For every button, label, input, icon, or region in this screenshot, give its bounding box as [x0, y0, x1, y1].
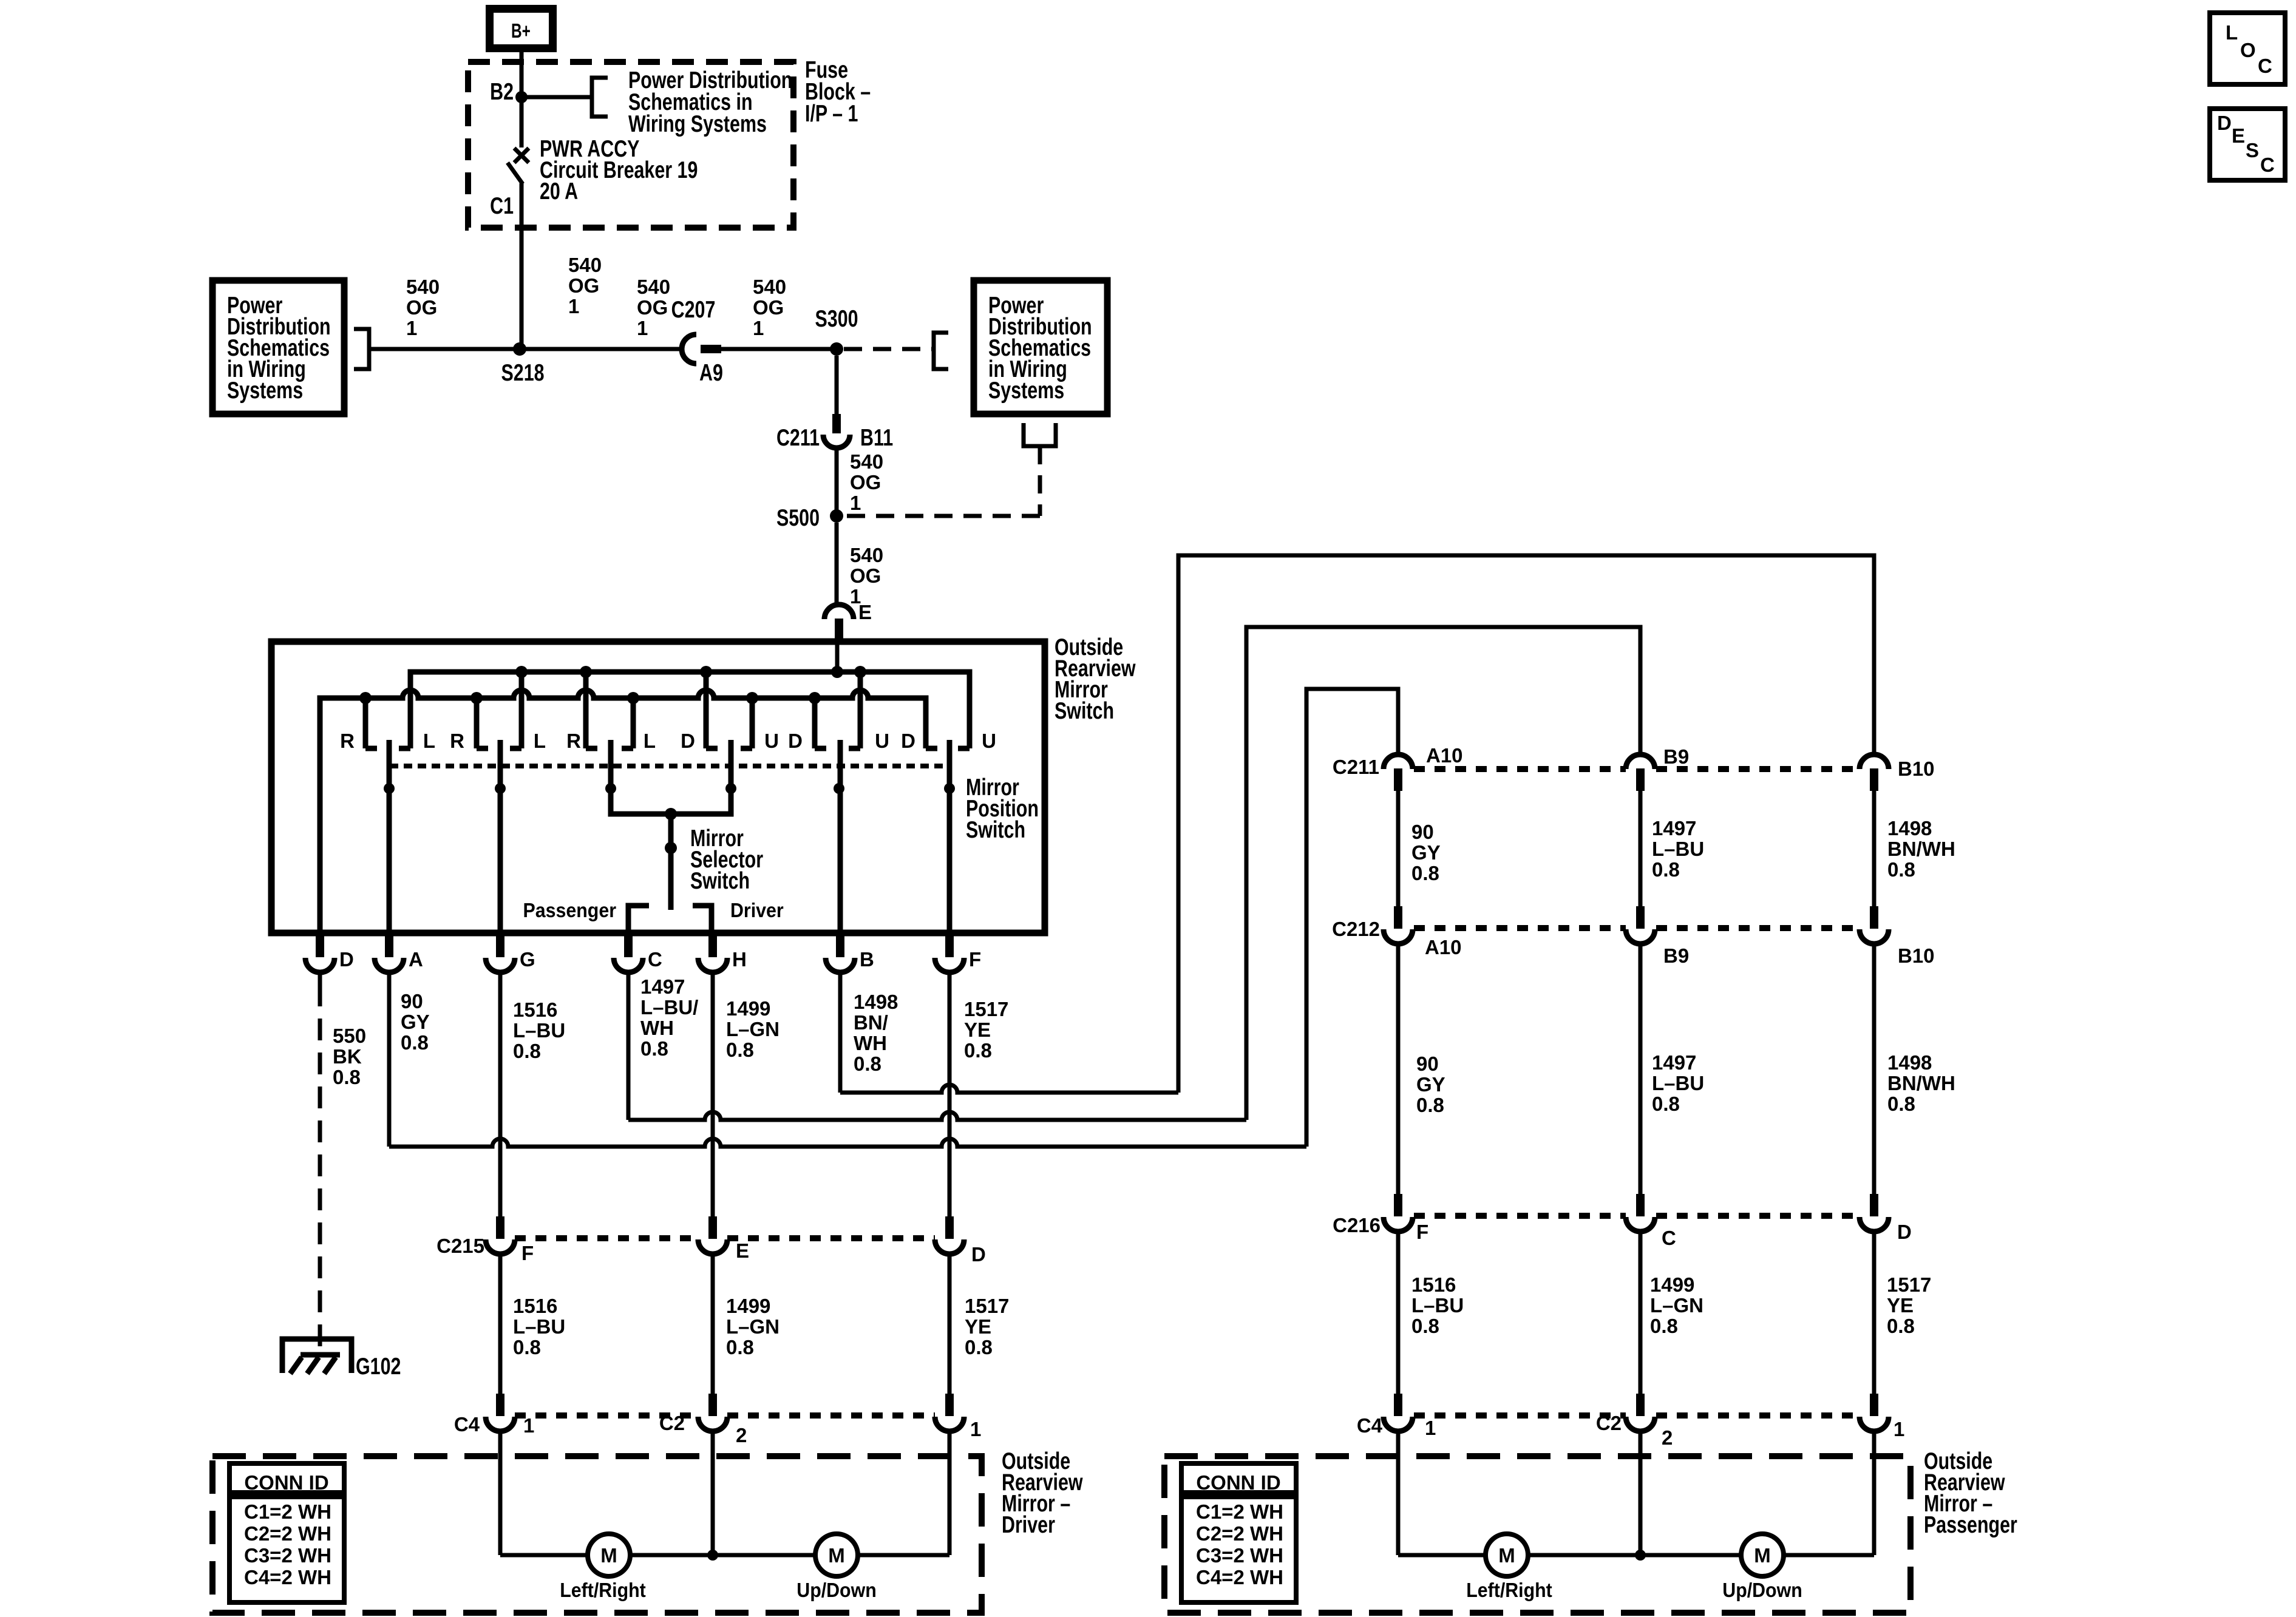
svg-text:540: 540 — [850, 450, 883, 473]
connector C216 dashed row — [1414, 1213, 1626, 1219]
connector C2 pin 2 (driver) — [698, 1394, 727, 1431]
wire C4-1 into driver mirror — [498, 1430, 503, 1555]
wire label 540 OG 1 (left of S218) — [406, 276, 440, 339]
motor M passenger left/right — [1486, 1534, 1528, 1576]
svg-text:D: D — [339, 948, 354, 971]
svg-text:F: F — [521, 1242, 534, 1264]
svg-text:GY: GY — [1416, 1073, 1445, 1096]
node B2 junction — [515, 91, 528, 103]
svg-text:C: C — [648, 948, 662, 971]
mirror position switch contact pair R/L section 3 — [586, 672, 633, 748]
driver mirror motor wiring — [500, 1553, 949, 1558]
svg-text:0.8: 0.8 — [1650, 1315, 1678, 1337]
wire H down to C215 — [711, 972, 715, 1216]
outside rearview mirror switch box — [271, 642, 1045, 933]
svg-text:1517: 1517 — [965, 1295, 1009, 1317]
node upper bus / D contact G4 — [700, 666, 712, 678]
wire label 1498 BN/WH 0.8 (switch B) — [854, 991, 898, 1075]
connector C211 dashed row (right) — [1414, 766, 1626, 772]
connector C215 pin E — [698, 1216, 727, 1254]
svg-text:D: D — [901, 730, 915, 752]
wire A down to corner — [387, 972, 392, 1147]
svg-text:D: D — [971, 1243, 986, 1266]
node lower bus / D contact G5 — [809, 692, 821, 704]
svg-text:Switch: Switch — [690, 867, 750, 893]
label Outside Rearview Mirror - Passenger — [1924, 1448, 2017, 1537]
svg-text:Switch: Switch — [966, 816, 1025, 842]
connector C216 pin C — [1626, 1194, 1655, 1232]
wire C207 to S300 — [721, 347, 837, 351]
node upper bus / E feed — [831, 666, 843, 678]
svg-text:Up/Down: Up/Down — [1722, 1579, 1802, 1601]
dashed wire to S500 — [844, 514, 1040, 518]
switch pole U/D section 3 — [947, 740, 953, 788]
svg-text:WH: WH — [640, 1017, 674, 1039]
Power Distribution Schematics box (right) — [974, 280, 1107, 414]
svg-text:C3=2 WH: C3=2 WH — [1196, 1544, 1283, 1567]
connector C216 pin F — [1384, 1194, 1413, 1232]
svg-text:C211: C211 — [776, 424, 820, 450]
svg-text:1: 1 — [1894, 1418, 1904, 1440]
dashed wire PD box down — [1038, 446, 1042, 516]
svg-text:GY: GY — [401, 1011, 430, 1033]
wire label 540 OG 1 (left of S300) — [753, 276, 786, 339]
node S500 splice — [830, 509, 843, 523]
svg-text:1: 1 — [970, 1418, 981, 1440]
svg-text:C2: C2 — [659, 1412, 685, 1434]
label Mirror Selector Switch — [690, 825, 763, 893]
svg-text:A: A — [409, 948, 423, 971]
riser wire B — [1178, 555, 1874, 1093]
svg-text:C2=2 WH: C2=2 WH — [244, 1522, 331, 1545]
svg-text:C: C — [1662, 1227, 1676, 1249]
svg-text:E: E — [858, 601, 872, 623]
wire pole to terminal A — [387, 788, 392, 933]
svg-text:E: E — [2232, 124, 2245, 147]
switch output connector pin A — [375, 933, 404, 972]
svg-text:1: 1 — [1425, 1417, 1436, 1439]
label Power Distribution box left — [227, 292, 331, 403]
outside rearview mirror driver dashed box — [212, 1456, 982, 1613]
svg-text:0.8: 0.8 — [1411, 862, 1439, 884]
wire C2-2 into passenger mirror — [1639, 1430, 1643, 1555]
label Power Distribution box right — [988, 292, 1092, 403]
node upper bus / L contact G3 — [580, 666, 592, 678]
routing wire C (1497) to passenger side — [628, 1112, 1246, 1120]
svg-text:S300: S300 — [815, 305, 858, 331]
label Mirror Position Switch — [966, 774, 1039, 842]
svg-text:Passenger: Passenger — [523, 899, 616, 921]
svg-text:YE: YE — [965, 1315, 991, 1338]
svg-text:GY: GY — [1411, 841, 1441, 864]
wire C down to corner — [627, 972, 631, 1120]
table rows CONN ID (driver) — [244, 1500, 331, 1588]
wire pole to terminal B — [838, 788, 843, 933]
svg-text:C207: C207 — [671, 296, 716, 322]
svg-text:R: R — [566, 730, 581, 752]
label PWR ACCY Circuit Breaker 19 20 A — [540, 135, 698, 204]
node S300 splice — [830, 342, 843, 356]
svg-text:C4=2 WH: C4=2 WH — [1196, 1566, 1283, 1588]
svg-text:BN/WH: BN/WH — [1887, 838, 1955, 860]
svg-text:U: U — [875, 730, 889, 752]
svg-text:OG: OG — [753, 296, 784, 319]
connector C4 pin 1 (passenger) — [1384, 1394, 1413, 1431]
connector C215 pin F — [486, 1216, 515, 1254]
svg-text:1499: 1499 — [726, 1295, 770, 1317]
svg-text:C1=2 WH: C1=2 WH — [244, 1500, 331, 1523]
node pole x=824 — [495, 783, 506, 794]
wire label 1499 L-GN 0.8 (driver) — [726, 1295, 779, 1358]
svg-text:D: D — [2217, 112, 2232, 134]
wire B+ to B2 — [520, 52, 524, 97]
svg-text:YE: YE — [964, 1019, 991, 1041]
node upper bus / U contact G5 — [854, 666, 866, 678]
connector C2 pin 1 (passenger) — [1860, 1394, 1889, 1431]
wire label 1498 BN/WH 0.8 (C211-C212) — [1887, 817, 1955, 881]
mirror selector switch linkage — [611, 788, 731, 814]
bracket to right PD box — [934, 333, 948, 369]
LOC reference box — [2210, 13, 2285, 84]
connector C212 pin A10 — [1384, 906, 1413, 944]
svg-text:C: C — [2260, 154, 2275, 176]
wire 90 GY C211 to C212 — [1396, 791, 1401, 906]
wire label 1497 L-BU 0.8 (C211-C212) — [1652, 817, 1704, 881]
svg-text:540: 540 — [850, 544, 883, 566]
driver mirror connector row dashed — [515, 1412, 698, 1419]
svg-text:B+: B+ — [511, 21, 531, 42]
node pole x=641 — [384, 783, 395, 794]
connector C211 pin B11 (in-line, vertical) — [823, 414, 850, 448]
connector C215 dashed row — [515, 1235, 698, 1241]
wire S500 to connector E — [835, 523, 839, 605]
switch pole U/D section 2 — [838, 740, 843, 788]
node lower bus / R contact G2 — [470, 692, 483, 704]
svg-text:WH: WH — [854, 1032, 887, 1054]
svg-text:1499: 1499 — [1650, 1273, 1694, 1296]
svg-text:Systems: Systems — [988, 377, 1064, 403]
svg-text:B9: B9 — [1663, 944, 1689, 967]
circuit breaker CB19 PWR ACCY — [508, 97, 529, 349]
svg-text:Driver: Driver — [730, 899, 784, 921]
bracket to Power Distribution Schematics (top) — [592, 78, 608, 117]
svg-text:0.8: 0.8 — [1887, 1093, 1915, 1115]
label Fuse Block - I/P - 1 — [805, 56, 871, 126]
svg-text:1: 1 — [637, 317, 648, 339]
svg-text:U: U — [982, 730, 996, 752]
riser wire C — [1246, 627, 1640, 1120]
svg-text:OG: OG — [637, 296, 668, 319]
svg-text:Systems: Systems — [227, 377, 303, 403]
svg-text:0.8: 0.8 — [333, 1066, 361, 1088]
svg-text:C4: C4 — [454, 1413, 480, 1436]
svg-text:90: 90 — [1411, 821, 1434, 843]
connector C215 pin D — [935, 1216, 964, 1254]
svg-text:D: D — [681, 730, 695, 752]
svg-text:CONN ID: CONN ID — [244, 1471, 328, 1494]
wire label 1499 L-GN 0.8 (switch H) — [726, 997, 779, 1061]
wire E into upper bus — [835, 642, 840, 672]
svg-text:L–BU: L–BU — [513, 1315, 565, 1338]
svg-text:C: C — [2258, 55, 2272, 77]
dashed wire S300 to PD reference — [844, 347, 934, 351]
wire 1498 C212 to C216 — [1872, 944, 1877, 1194]
svg-text:A10: A10 — [1426, 744, 1463, 767]
wire C4-1 into passenger mirror — [1396, 1430, 1401, 1555]
svg-text:H: H — [732, 948, 747, 971]
wire C211 to S500 — [835, 448, 839, 516]
wire label 90 GY 0.8 (C211-C212) — [1411, 821, 1441, 884]
svg-text:U: U — [764, 730, 779, 752]
wire label 1499 L-GN 0.8 (passenger) — [1650, 1273, 1703, 1337]
wire B2 to schematic reference — [521, 95, 592, 100]
svg-text:1: 1 — [753, 317, 764, 339]
selector contact Passenger — [628, 906, 649, 933]
riser wire A — [1306, 689, 1398, 1147]
wire C2-2 into driver mirror — [711, 1430, 715, 1555]
connector C216 pin D — [1860, 1194, 1889, 1232]
svg-text:I/P – 1: I/P – 1 — [805, 100, 858, 126]
svg-text:D: D — [1897, 1221, 1912, 1243]
connector C211 pin B9 — [1626, 754, 1655, 791]
wire PD box to S218 — [369, 347, 520, 351]
wire label 1497 L-BU 0.8 (C212-C216) — [1652, 1051, 1704, 1115]
svg-text:L–BU: L–BU — [513, 1019, 565, 1042]
wire label 540 OG 1 (below S500) — [850, 544, 883, 608]
svg-text:M: M — [600, 1544, 617, 1567]
node pole x=1006 — [605, 783, 616, 794]
upper bus of position switch — [410, 672, 970, 748]
svg-text:L–GN: L–GN — [726, 1018, 779, 1040]
svg-text:M: M — [828, 1544, 845, 1567]
svg-text:540: 540 — [637, 276, 670, 298]
node selector bar center — [665, 808, 677, 820]
svg-text:M: M — [1754, 1544, 1771, 1567]
svg-text:L–GN: L–GN — [726, 1315, 779, 1338]
svg-text:1: 1 — [406, 317, 417, 339]
table rows CONN ID (passenger) — [1196, 1500, 1283, 1588]
svg-text:1517: 1517 — [964, 998, 1008, 1020]
svg-text:0.8: 0.8 — [1411, 1315, 1439, 1337]
wire label 540 OG 1 (right of S218) — [637, 276, 670, 339]
svg-text:20 A: 20 A — [540, 178, 578, 204]
node pole x=1382 — [834, 783, 844, 794]
switch pole R/L section 1 — [387, 740, 392, 788]
svg-text:B: B — [860, 948, 874, 971]
wire label 1516 L-BU 0.8 (switch G) — [513, 998, 565, 1062]
svg-text:B11: B11 — [860, 424, 893, 450]
motor M driver up/down — [815, 1534, 858, 1576]
svg-text:OG: OG — [568, 274, 599, 297]
svg-text:1: 1 — [523, 1414, 534, 1437]
svg-text:540: 540 — [753, 276, 786, 298]
motor M passenger up/down — [1741, 1534, 1784, 1576]
switch output connector pin B — [826, 933, 855, 972]
svg-text:C1=2 WH: C1=2 WH — [1196, 1500, 1283, 1523]
svg-text:Left/Right: Left/Right — [1466, 1579, 1552, 1601]
switch output connector pin F — [935, 933, 964, 972]
wire label 550 BK 0.8 — [333, 1025, 366, 1088]
ground G102 — [282, 1339, 352, 1374]
svg-text:1: 1 — [568, 295, 579, 317]
svg-text:0.8: 0.8 — [726, 1336, 754, 1358]
svg-text:1499: 1499 — [726, 997, 770, 1020]
svg-text:0.8: 0.8 — [401, 1031, 429, 1054]
wire F down to C215 — [948, 972, 952, 1216]
wire label 1516 L-BU 0.8 (driver) — [513, 1295, 565, 1358]
svg-text:C211: C211 — [1333, 756, 1379, 778]
svg-text:C215: C215 — [436, 1235, 484, 1257]
wire pole to terminal F — [947, 788, 953, 933]
motor M driver left/right — [588, 1534, 630, 1576]
wire 1499 C216 to C2 — [1639, 1230, 1643, 1394]
svg-text:540: 540 — [406, 276, 440, 298]
wire label 540 OG 1 (below breaker) — [568, 254, 602, 317]
wire label 1497 L-BU/WH 0.8 (switch C) — [640, 975, 698, 1060]
svg-text:1497: 1497 — [1652, 817, 1696, 839]
svg-text:BK: BK — [333, 1045, 362, 1068]
mirror position switch contact pair U/D section 1 — [706, 672, 752, 748]
svg-text:C4: C4 — [1357, 1414, 1383, 1437]
connector C4 pin 1 (driver) — [486, 1394, 515, 1431]
svg-text:0.8: 0.8 — [1416, 1094, 1444, 1116]
mirror position switch contact pair R/L section 1 — [365, 672, 410, 748]
wire label 1498 BN/WH 0.8 (C212-C216) — [1887, 1051, 1955, 1115]
wire 1499 C215 to C2 — [711, 1253, 715, 1394]
svg-text:540: 540 — [568, 254, 602, 276]
wire 1497 C212 to C216 — [1639, 944, 1643, 1194]
CONN ID table (driver) — [229, 1463, 344, 1602]
svg-text:1498: 1498 — [854, 991, 898, 1013]
svg-text:F: F — [969, 948, 981, 971]
node lower bus / U contact G4 — [746, 692, 758, 704]
svg-text:L: L — [2226, 21, 2238, 44]
svg-text:0.8: 0.8 — [1652, 858, 1680, 881]
svg-text:0.8: 0.8 — [1652, 1093, 1680, 1115]
svg-text:B10: B10 — [1898, 758, 1935, 780]
bracket from left PD box — [354, 329, 369, 369]
wire label 90 GY 0.8 (switch A) — [401, 990, 430, 1054]
node lower bus / L contact G3 — [627, 692, 639, 704]
wire label 90 GY 0.8 (C212-C216) — [1416, 1053, 1445, 1116]
connector E into switch — [824, 605, 854, 642]
wire 1497 C211 to C212 — [1639, 791, 1643, 906]
svg-text:M: M — [1498, 1544, 1515, 1567]
switch output connector pin H — [698, 933, 727, 972]
svg-text:YE: YE — [1887, 1294, 1914, 1317]
svg-text:0.8: 0.8 — [965, 1336, 993, 1358]
wire label 1516 L-BU 0.8 (passenger) — [1411, 1273, 1464, 1337]
wire C2-1 into passenger mirror — [1872, 1430, 1877, 1555]
svg-text:90: 90 — [401, 990, 423, 1012]
svg-text:L–BU: L–BU — [1652, 838, 1704, 860]
wire label 540 OG 1 (above S500) — [850, 450, 883, 514]
connector C211 pin A10 — [1384, 754, 1413, 791]
wire 90 GY C212 to C216 — [1396, 944, 1401, 1194]
label Outside Rearview Mirror Switch — [1055, 634, 1136, 724]
svg-text:R: R — [340, 730, 355, 752]
svg-text:1516: 1516 — [513, 998, 557, 1021]
svg-text:B9: B9 — [1663, 745, 1689, 768]
fuse block dashed box — [468, 62, 793, 228]
wire label 1517 YE 0.8 (switch F) — [964, 998, 1008, 1062]
svg-text:1517: 1517 — [1887, 1273, 1931, 1296]
svg-text:0.8: 0.8 — [1887, 1315, 1915, 1337]
selector moving contact — [668, 848, 674, 910]
wire 1498 C211 to C212 — [1872, 791, 1877, 906]
svg-text:0.8: 0.8 — [964, 1039, 992, 1062]
svg-text:0.8: 0.8 — [640, 1037, 668, 1060]
connector C212 dashed row — [1414, 925, 1626, 931]
svg-text:C2=2 WH: C2=2 WH — [1196, 1522, 1283, 1545]
svg-text:L–BU/: L–BU/ — [640, 996, 698, 1019]
wire 1517 C215 to C2 — [948, 1253, 952, 1394]
svg-text:C4=2 WH: C4=2 WH — [244, 1566, 331, 1588]
svg-text:1516: 1516 — [513, 1295, 557, 1317]
svg-text:C212: C212 — [1332, 918, 1380, 940]
svg-text:BN/: BN/ — [854, 1011, 888, 1034]
wire label 1517 YE 0.8 (passenger) — [1887, 1273, 1931, 1337]
svg-text:F: F — [1416, 1221, 1428, 1243]
connector C211 pin B10 — [1860, 754, 1889, 791]
wire B down to corner — [838, 972, 843, 1093]
mirror position switch contact pair U/D section 2 — [815, 672, 860, 748]
wire 1516 C216 to C4 — [1396, 1230, 1401, 1394]
DESC reference box — [2210, 109, 2285, 180]
svg-text:1516: 1516 — [1411, 1273, 1456, 1296]
svg-text:R: R — [450, 730, 464, 752]
switch pole U/D section 1 — [729, 740, 734, 788]
svg-text:D: D — [788, 730, 803, 752]
wire D solid stub — [318, 972, 322, 985]
node selector pivot — [665, 842, 677, 854]
svg-text:A9: A9 — [699, 359, 723, 385]
node lower bus / R contact G1 — [359, 692, 372, 704]
svg-text:Passenger: Passenger — [1924, 1511, 2017, 1537]
svg-text:L: L — [423, 730, 435, 752]
svg-text:L–GN: L–GN — [1650, 1294, 1703, 1317]
wire 1516 C215 to C4 — [498, 1253, 503, 1394]
node upper bus / R contact G2 — [515, 666, 528, 678]
svg-text:Up/Down: Up/Down — [796, 1579, 876, 1601]
svg-text:L–BU: L–BU — [1411, 1294, 1464, 1317]
svg-text:S500: S500 — [776, 504, 820, 531]
svg-text:1497: 1497 — [1652, 1051, 1696, 1074]
selector contact Driver — [693, 906, 712, 933]
switch output connector pin C — [614, 933, 643, 972]
svg-text:OG: OG — [850, 471, 881, 493]
svg-text:S218: S218 — [501, 359, 544, 385]
svg-text:Driver: Driver — [1002, 1511, 1055, 1537]
node pole x=1204 — [725, 783, 736, 794]
wire S300 down to C211 — [835, 356, 839, 414]
wire label 1517 YE 0.8 (driver) — [965, 1295, 1009, 1358]
battery feed B+ terminal — [486, 5, 557, 52]
switch pole R/L section 2 — [498, 740, 503, 788]
svg-text:1: 1 — [850, 492, 861, 514]
passenger mirror connector row dashed — [1414, 1412, 1626, 1419]
svg-text:1497: 1497 — [640, 975, 685, 998]
svg-text:0.8: 0.8 — [513, 1040, 541, 1062]
switch output connector pin D — [305, 933, 335, 972]
svg-text:L: L — [644, 730, 656, 752]
wire selector bar down — [668, 814, 674, 848]
node pole x=1564 — [944, 783, 955, 794]
wire C2-1 into driver mirror — [948, 1430, 952, 1555]
svg-text:0.8: 0.8 — [726, 1039, 754, 1061]
svg-text:B10: B10 — [1898, 944, 1935, 967]
svg-text:1498: 1498 — [1887, 817, 1932, 839]
